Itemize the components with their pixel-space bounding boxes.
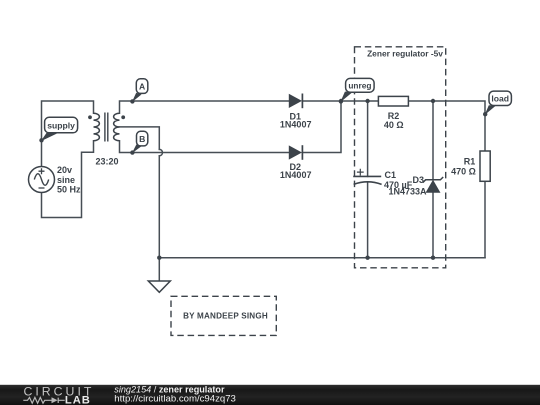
dashed box Zener regulator -5v [355,47,446,268]
value label V1 [57,165,81,195]
svg-text:470 Ω: 470 Ω [451,167,476,177]
wire D3 top branch [432,101,434,180]
secondary coil [114,113,120,141]
svg-text:C1: C1 [385,170,397,180]
junction C1 top [365,99,369,103]
value label R1 [451,156,476,176]
svg-text:1N4733A: 1N4733A [389,186,428,196]
svg-text:LAB: LAB [65,394,91,405]
node label supply [39,117,77,142]
wire R2 right to load corner down to R1 top [408,101,485,151]
svg-text:A: A [139,81,145,91]
value label R2 [384,111,404,130]
node label A [130,79,148,104]
svg-text:50 Hz: 50 Hz [57,185,81,195]
wire primary bottom: transformer primary bottom to source bottom [42,141,94,218]
svg-text:load: load [491,94,509,104]
junction D3 top [431,99,435,103]
wire R1 bottom to bottom rail [484,181,486,257]
value label D3 [389,175,428,196]
wire C1 bottom branch [367,182,369,258]
svg-text:40 Ω: 40 Ω [384,120,404,130]
primary coil [94,113,100,141]
value label D2 [280,162,312,180]
node label B [130,131,148,155]
svg-text:unreg: unreg [348,81,371,91]
svg-text:D3: D3 [413,175,425,185]
transformer T1 [94,113,120,142]
capacitor C1 [353,169,381,185]
svg-text:R1: R1 [464,156,476,166]
transformer polarity dot primary [88,115,92,119]
value label D1 [280,112,312,130]
junction D3 bottom [431,256,435,260]
wire D1 cathode to R2 left [302,100,378,102]
wire secondary center tap to ground riser (with hop over B row) [120,127,160,149]
value label C1 [384,170,413,190]
svg-text:supply: supply [47,120,75,130]
wire bottom rail [159,257,485,259]
voltage source V1 20v sine 50Hz [29,167,55,193]
resistor R1 [480,151,490,181]
footer bar [0,385,540,405]
wire node B row: secondary bottom to D2 anode [120,141,290,153]
wire ground lead [158,258,160,281]
transformer polarity dot secondary [121,115,125,119]
svg-text:Zener regulator -5v: Zener regulator -5v [367,48,443,58]
junction C1 bottom [365,256,369,260]
resistor R2 [378,96,408,106]
svg-text:http://circuitlab.com/c94zq73: http://circuitlab.com/c94zq73 [114,394,236,405]
svg-text:BY MANDEEP SINGH: BY MANDEEP SINGH [183,311,268,320]
svg-text:23:20: 23:20 [95,156,118,166]
core lines [105,113,108,142]
svg-text:20v: 20v [57,165,72,175]
wire D3 bottom branch [432,192,434,257]
wire node A row: secondary top to D1 anode [120,101,290,113]
wire center tap riser below hop to rail [158,156,160,258]
svg-text:sine: sine [57,175,75,185]
svg-text:1N4007: 1N4007 [280,170,312,180]
wire hop over B wire [159,149,162,155]
footer logo resistor-diode glyph [23,397,64,403]
zener diode D3 [423,177,443,192]
node label load [483,91,511,116]
dashed box BY MANDEEP SINGH [171,296,276,335]
wire D2 cathode to unreg node riser [302,101,341,153]
ground [148,281,170,292]
junction at unreg node [339,99,343,103]
svg-text:B: B [139,134,145,144]
diode D2 [289,145,302,160]
diode D1 [289,94,302,109]
node label unreg [339,78,374,103]
svg-text:1N4007: 1N4007 [280,119,312,129]
wire C1 top branch [367,101,369,176]
wire primary top: source top to transformer primary top [42,101,94,167]
junction ground rail [157,256,161,260]
